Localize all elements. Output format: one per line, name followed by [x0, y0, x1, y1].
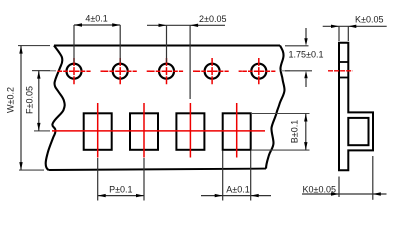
dimension 1.75±0.1: extension lines	[285, 45, 309, 47]
dimension W±0.2: extension ticks	[18, 45, 50, 47]
dimension W±0.2: dim line with inside arrows	[20, 46, 22, 171]
sprocket hole H3	[159, 64, 174, 79]
dimension B±0.1: dim line with inside arrows	[305, 114, 307, 151]
side view: sprocket hole section lines	[339, 61, 348, 63]
tape left break edge	[46, 46, 65, 171]
dimension B±0.1: extension lines	[252, 113, 310, 115]
hole H3 crosshair (red)	[150, 58, 183, 85]
sprocket hole H1	[67, 64, 82, 79]
dimension F±0.05: dim line with inside arrows	[38, 71, 40, 131]
hole row centerline stub left (grey)	[32, 70, 56, 72]
pocket P1 vertical centerline (red)	[97, 103, 99, 158]
svg-text:2±0.05: 2±0.05	[199, 14, 226, 24]
red centerline short dash right of hole H2	[147, 70, 150, 72]
red centerline short dash right of hole H4	[239, 70, 242, 72]
tape right break edge	[266, 46, 285, 169]
red centerline short dash right of hole H3	[193, 70, 196, 72]
component pocket P4	[223, 113, 251, 150]
dimension A±0.1: dim line with outside arrows	[201, 195, 271, 197]
svg-text:F±0.05: F±0.05	[25, 86, 35, 114]
hole H5 crosshair (red)	[242, 58, 275, 85]
svg-text:A±0.1: A±0.1	[226, 185, 249, 195]
dimension 2±0.05: extension lines	[166, 25, 168, 62]
component pocket P3	[176, 113, 204, 150]
pocket P4 vertical centerline (red)	[236, 103, 238, 158]
component pocket P2	[130, 113, 158, 150]
dimension 4±0.1: extension lines	[73, 25, 75, 63]
svg-text:K±0.05: K±0.05	[355, 15, 383, 25]
dimension F±0.05: extension ticks	[32, 70, 50, 72]
sprocket hole H4	[205, 64, 220, 79]
dimension 2±0.05: dim line with outside arrows	[147, 24, 225, 26]
svg-text:W±0.2: W±0.2	[6, 87, 16, 113]
pocket P2 vertical centerline (red)	[143, 103, 145, 158]
pocket P3 vertical centerline (red)	[189, 103, 191, 158]
svg-text:1.75±0.1: 1.75±0.1	[289, 50, 324, 60]
hole H2 crosshair (red)	[104, 58, 137, 85]
svg-text:K0±0.05: K0±0.05	[303, 184, 336, 194]
sprocket hole H2	[113, 64, 128, 79]
dimension P±0.1: extension lines	[97, 158, 99, 201]
hole H1 crosshair (red)	[57, 58, 90, 85]
tape top edge	[54, 45, 280, 47]
hole H4 crosshair (red)	[196, 58, 229, 85]
hole row centerline stub right (grey)	[281, 70, 290, 72]
dimension 1.75±0.1: outside arrows with stems	[305, 28, 307, 39]
component pocket P1	[84, 113, 112, 150]
svg-text:P±0.1: P±0.1	[109, 185, 132, 195]
side view: pocket cavity inner rect	[348, 118, 368, 145]
side view: tape cross-section outline	[339, 43, 373, 170]
dimension K±0.05: dim line with outside arrows	[323, 25, 387, 27]
dimension K0±0.05: extension lines	[338, 177, 340, 198]
red centerline short dash right of hole H1	[101, 70, 104, 72]
side view: hole centerline (red)	[328, 70, 353, 72]
dimension 4±0.1: dim line with inside arrows	[74, 24, 120, 26]
pocket row centerline (red dashed)	[52, 130, 265, 132]
tape bottom edge	[49, 169, 267, 170]
sprocket hole H5	[251, 64, 266, 79]
svg-text:4±0.1: 4±0.1	[85, 14, 107, 24]
svg-text:B±0.1: B±0.1	[290, 120, 300, 143]
dimension K±0.05: extension lines	[338, 26, 340, 41]
dimension A±0.1: extension lines	[222, 151, 224, 201]
dimension P±0.1: dim line with inside arrows	[98, 195, 144, 197]
dimension K0±0.05: dim line with outside arrows	[302, 193, 387, 195]
